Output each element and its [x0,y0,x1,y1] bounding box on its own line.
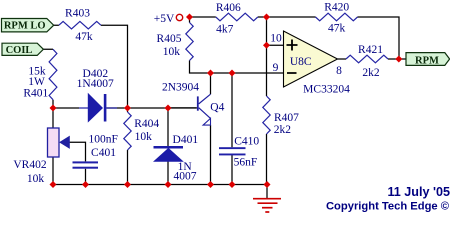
svg-text:MC33204: MC33204 [303,84,350,96]
svg-text:Q4: Q4 [210,101,224,113]
svg-text:+5V: +5V [154,13,175,25]
svg-text:11 July '05: 11 July '05 [387,185,450,199]
svg-text:RPM LO: RPM LO [4,21,46,32]
svg-text:R405: R405 [157,33,182,45]
svg-text:2k2: 2k2 [274,124,292,136]
svg-text:RPM: RPM [415,55,439,66]
svg-text:R404: R404 [134,118,159,130]
svg-text:47k: 47k [328,23,346,35]
svg-text:U8C: U8C [290,56,312,68]
svg-text:R421: R421 [358,44,383,56]
svg-text:2N3904: 2N3904 [162,82,199,94]
svg-text:4007: 4007 [174,171,197,183]
svg-text:8: 8 [336,65,342,77]
svg-text:R420: R420 [324,2,349,14]
svg-text:1N4007: 1N4007 [77,78,114,90]
svg-text:Copyright Tech Edge ©: Copyright Tech Edge © [326,201,450,213]
svg-text:D401: D401 [173,134,199,146]
svg-text:10k: 10k [163,46,181,58]
svg-text:C401: C401 [91,147,116,159]
svg-text:47k: 47k [75,31,93,43]
svg-text:VR402: VR402 [13,159,46,171]
svg-text:56nF: 56nF [234,156,258,168]
svg-text:C410: C410 [234,136,259,148]
svg-text:100nF: 100nF [88,134,117,146]
svg-text:10: 10 [270,32,282,44]
svg-text:10k: 10k [27,173,45,185]
svg-text:R407: R407 [274,112,299,124]
svg-text:R406: R406 [216,2,241,14]
svg-text:10k: 10k [135,131,153,143]
svg-text:2k2: 2k2 [362,67,380,79]
svg-text:9: 9 [273,62,279,74]
svg-text:4k7: 4k7 [216,23,234,35]
svg-text:COIL: COIL [6,45,33,56]
svg-text:R403: R403 [65,8,90,20]
svg-text:1W: 1W [28,76,45,88]
svg-text:R401: R401 [23,87,48,99]
